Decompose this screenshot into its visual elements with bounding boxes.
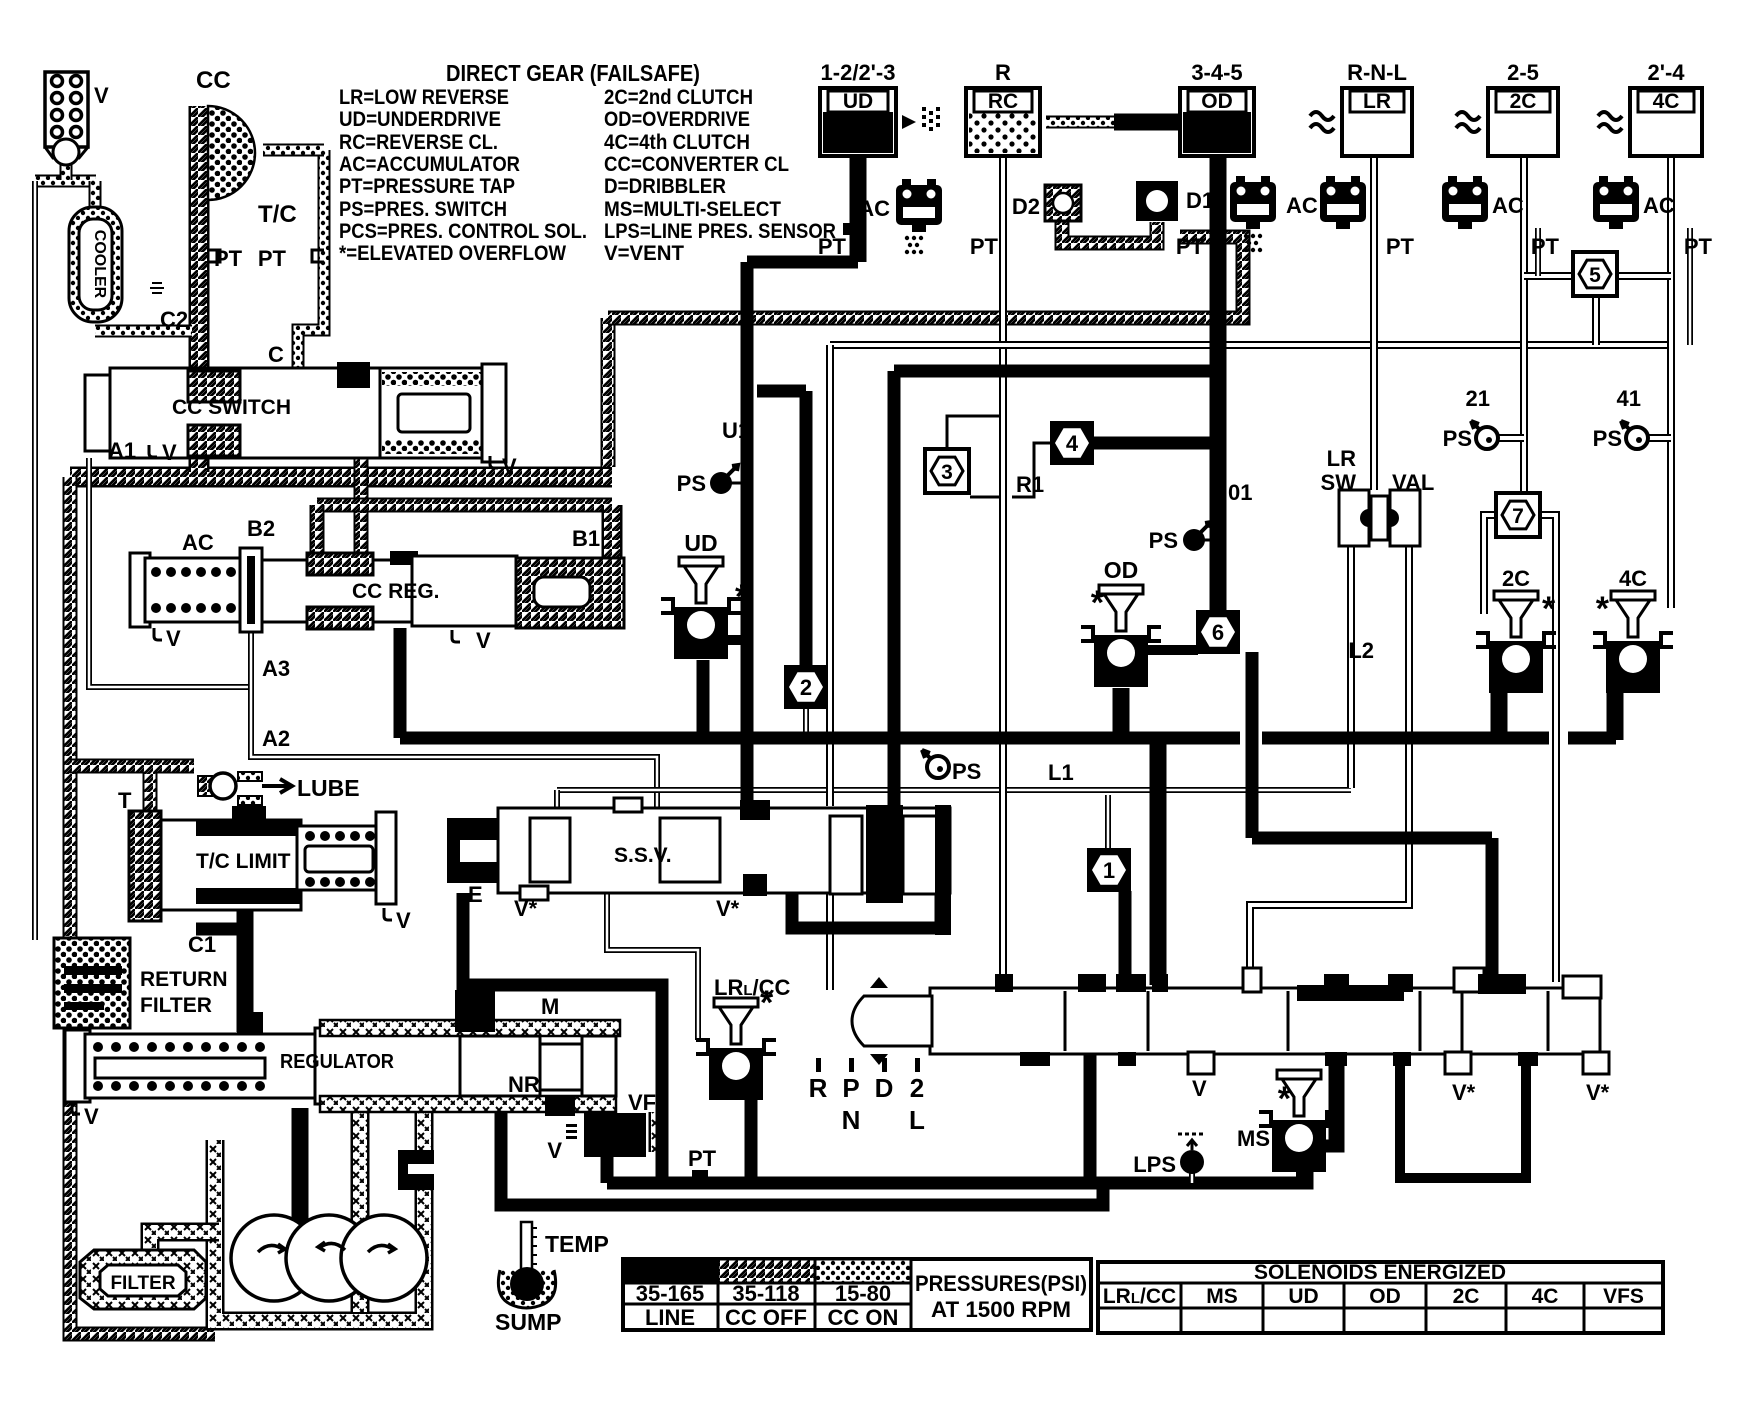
svg-text:V: V <box>162 440 177 465</box>
svg-text:UD: UD <box>1288 1285 1318 1308</box>
svg-text:AC: AC <box>182 530 214 555</box>
svg-text:UD=UNDERDRIVE: UD=UNDERDRIVE <box>339 108 501 131</box>
svg-text:*: * <box>735 578 749 616</box>
svg-text:15-80: 15-80 <box>835 1281 891 1306</box>
svg-text:*: * <box>1596 590 1610 628</box>
svg-text:3-4-5: 3-4-5 <box>1191 60 1242 85</box>
svg-text:V: V <box>166 626 181 651</box>
svg-text:2'-4: 2'-4 <box>1647 60 1685 85</box>
svg-text:LR: LR <box>1327 446 1356 471</box>
svg-text:OD: OD <box>1104 557 1139 583</box>
svg-text:L1: L1 <box>1048 760 1074 785</box>
svg-text:2C: 2C <box>1510 90 1537 113</box>
svg-text:DIRECT GEAR (FAILSAFE): DIRECT GEAR (FAILSAFE) <box>446 60 700 86</box>
svg-text:MS: MS <box>1237 1126 1270 1151</box>
svg-text:41: 41 <box>1617 386 1641 411</box>
svg-text:V: V <box>502 454 517 479</box>
svg-text:PS: PS <box>1443 426 1472 451</box>
svg-text:AC: AC <box>1492 193 1524 218</box>
svg-text:LRL/CC: LRL/CC <box>1103 1285 1176 1308</box>
svg-text:PT: PT <box>688 1146 717 1171</box>
svg-text:PCS: PCS <box>593 1125 636 1148</box>
svg-text:E: E <box>468 882 483 907</box>
svg-text:OD=OVERDRIVE: OD=OVERDRIVE <box>604 108 750 131</box>
svg-text:R1: R1 <box>1016 472 1044 497</box>
svg-text:LRL/CC: LRL/CC <box>714 975 791 1000</box>
svg-text:3: 3 <box>941 461 953 484</box>
svg-text:L: L <box>909 1105 925 1135</box>
svg-text:2C=2nd CLUTCH: 2C=2nd CLUTCH <box>604 86 753 109</box>
svg-text:OD: OD <box>1369 1285 1401 1308</box>
svg-text:LINE: LINE <box>645 1305 695 1330</box>
svg-text:REGULATOR: REGULATOR <box>280 1051 394 1073</box>
svg-text:PT: PT <box>1531 234 1560 259</box>
svg-text:C2: C2 <box>160 307 188 332</box>
svg-text:7: 7 <box>1512 505 1524 528</box>
svg-text:1: 1 <box>1103 858 1115 883</box>
svg-text:SUMP: SUMP <box>495 1309 561 1335</box>
svg-text:*: * <box>1091 584 1105 622</box>
svg-text:UD: UD <box>684 530 717 556</box>
svg-text:CC=CONVERTER CL: CC=CONVERTER CL <box>604 153 789 176</box>
svg-text:VFS: VFS <box>1603 1285 1644 1308</box>
svg-text:01: 01 <box>1228 480 1252 505</box>
svg-text:V*: V* <box>1586 1080 1610 1105</box>
svg-text:A2: A2 <box>262 726 290 751</box>
svg-text:CC SWITCH: CC SWITCH <box>172 396 291 419</box>
svg-text:5: 5 <box>1589 264 1601 287</box>
svg-text:SW: SW <box>1321 470 1357 495</box>
svg-text:LR=LOW REVERSE: LR=LOW REVERSE <box>339 86 509 109</box>
svg-text:L2: L2 <box>1348 638 1374 663</box>
svg-text:1-2/2'-3: 1-2/2'-3 <box>821 60 896 85</box>
svg-text:2: 2 <box>910 1073 924 1103</box>
svg-text:2: 2 <box>800 675 812 700</box>
svg-text:B1: B1 <box>572 526 600 551</box>
svg-text:R-N-L: R-N-L <box>1347 60 1407 85</box>
svg-text:RC=REVERSE CL.: RC=REVERSE CL. <box>339 131 498 154</box>
svg-text:PT: PT <box>970 234 999 259</box>
svg-text:*: * <box>1278 1080 1292 1118</box>
svg-text:*=ELEVATED OVERFLOW: *=ELEVATED OVERFLOW <box>339 242 566 265</box>
svg-text:V*: V* <box>514 896 538 921</box>
svg-text:VF: VF <box>628 1090 656 1115</box>
svg-text:*: * <box>760 984 774 1022</box>
svg-text:LPS=LINE PRES. SENSOR: LPS=LINE PRES. SENSOR <box>604 220 836 243</box>
svg-text:35-118: 35-118 <box>732 1281 799 1306</box>
svg-text:V*: V* <box>1452 1080 1476 1105</box>
svg-text:T/C LIMIT: T/C LIMIT <box>196 850 291 873</box>
svg-text:A3: A3 <box>262 656 290 681</box>
svg-text:VAL: VAL <box>1392 470 1434 495</box>
svg-text:PT=PRESSURE TAP: PT=PRESSURE TAP <box>339 175 515 198</box>
svg-text:V: V <box>94 83 109 108</box>
svg-text:S.S.V.: S.S.V. <box>614 844 672 867</box>
svg-text:PS: PS <box>677 471 706 496</box>
svg-text:NR: NR <box>508 1072 540 1097</box>
svg-text:PS: PS <box>952 759 981 784</box>
svg-text:AC=ACCUMULATOR: AC=ACCUMULATOR <box>339 153 520 176</box>
svg-text:PRESSURES(PSI): PRESSURES(PSI) <box>915 1271 1087 1296</box>
svg-text:PS: PS <box>1593 426 1622 451</box>
svg-text:CC OFF: CC OFF <box>725 1305 807 1330</box>
svg-text:TEMP: TEMP <box>545 1231 609 1257</box>
svg-text:V=VENT: V=VENT <box>604 242 684 265</box>
svg-text:T: T <box>118 788 132 813</box>
svg-text:CC: CC <box>196 67 231 94</box>
svg-text:4C: 4C <box>1653 90 1680 113</box>
svg-text:CC ON: CC ON <box>828 1305 899 1330</box>
svg-text:MS=MULTI-SELECT: MS=MULTI-SELECT <box>604 198 781 221</box>
svg-text:D: D <box>875 1073 894 1103</box>
svg-text:PT: PT <box>258 246 287 271</box>
svg-text:6: 6 <box>1212 620 1224 645</box>
svg-text:A1: A1 <box>108 438 136 463</box>
svg-text:V: V <box>476 628 491 653</box>
svg-text:AC: AC <box>858 196 890 221</box>
svg-text:D2: D2 <box>1012 194 1040 219</box>
svg-text:PS=PRES. SWITCH: PS=PRES. SWITCH <box>339 198 507 221</box>
svg-text:LR: LR <box>1363 90 1391 113</box>
svg-text:35-165: 35-165 <box>636 1281 705 1306</box>
svg-text:4C: 4C <box>1619 566 1647 591</box>
svg-text:COOLER: COOLER <box>91 230 108 299</box>
svg-text:PT: PT <box>1386 234 1415 259</box>
svg-text:D1: D1 <box>1186 188 1214 213</box>
svg-text:C1: C1 <box>188 932 216 957</box>
svg-text:SOLENOIDS ENERGIZED: SOLENOIDS ENERGIZED <box>1254 1261 1506 1284</box>
svg-text:D=DRIBBLER: D=DRIBBLER <box>604 175 726 198</box>
svg-text:AT 1500 RPM: AT 1500 RPM <box>931 1297 1071 1322</box>
svg-text:UD: UD <box>843 90 873 113</box>
svg-text:LUBE: LUBE <box>297 775 360 801</box>
svg-text:2C: 2C <box>1502 566 1530 591</box>
svg-text:FILTER: FILTER <box>110 1273 175 1294</box>
svg-text:4C=4th CLUTCH: 4C=4th CLUTCH <box>604 131 750 154</box>
svg-text:PCS=PRES. CONTROL SOL.: PCS=PRES. CONTROL SOL. <box>339 220 587 243</box>
svg-text:PS: PS <box>1149 528 1178 553</box>
svg-text:AC: AC <box>1643 193 1675 218</box>
svg-text:MS: MS <box>1206 1285 1238 1308</box>
svg-text:M: M <box>541 994 559 1019</box>
svg-text:RC: RC <box>988 90 1018 113</box>
svg-text:AC: AC <box>1286 193 1318 218</box>
svg-text:21: 21 <box>1466 386 1490 411</box>
svg-text:RETURN: RETURN <box>140 968 228 991</box>
svg-text:R: R <box>995 60 1011 85</box>
svg-text:V: V <box>1192 1076 1207 1101</box>
svg-text:4C: 4C <box>1532 1285 1559 1308</box>
svg-text:T/C: T/C <box>258 201 297 228</box>
svg-text:FILTER: FILTER <box>140 994 212 1017</box>
svg-text:4: 4 <box>1066 431 1079 456</box>
svg-text:2C: 2C <box>1453 1285 1480 1308</box>
svg-text:C: C <box>268 342 284 367</box>
svg-text:2-5: 2-5 <box>1507 60 1539 85</box>
svg-text:U1: U1 <box>722 418 750 443</box>
svg-text:PT: PT <box>1684 234 1713 259</box>
svg-text:R: R <box>809 1073 828 1103</box>
svg-text:OD: OD <box>1201 90 1233 113</box>
svg-text:V*: V* <box>716 896 740 921</box>
svg-text:V: V <box>84 1104 99 1129</box>
svg-text:PT: PT <box>1176 234 1205 259</box>
svg-text:N: N <box>842 1105 861 1135</box>
svg-text:*: * <box>1542 590 1556 628</box>
svg-text:LPS: LPS <box>1133 1152 1176 1177</box>
svg-text:CC REG.: CC REG. <box>352 580 440 603</box>
svg-text:B2: B2 <box>247 516 275 541</box>
svg-text:V: V <box>396 908 411 933</box>
svg-text:V: V <box>547 1138 562 1163</box>
svg-text:P: P <box>842 1073 859 1103</box>
